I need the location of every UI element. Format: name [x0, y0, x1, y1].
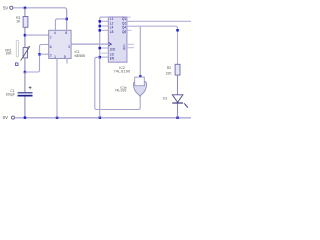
node junction pin4/pin8 — [65, 18, 68, 21]
wire R2 to LED — [177, 75, 179, 95]
wire pin 8 drop from 5V corner — [66, 9, 68, 31]
node rail junction LED — [176, 116, 179, 119]
wire stub L2 — [100, 20, 109, 22]
wire stub U/D — [100, 47, 109, 49]
wire stub LD — [101, 52, 109, 54]
svg-text:5V: 5V — [3, 5, 8, 10]
wire pin 5 stub — [66, 58, 68, 64]
wire C stub — [126, 43, 134, 45]
node rail junction pin1 — [56, 116, 59, 119]
node rail junction C1 — [24, 116, 27, 119]
wire Q4 to R2 corner — [126, 26, 177, 64]
wire 5V rail to corner above IC1 — [13, 8, 66, 31]
LED emission arrows — [184, 103, 187, 107]
svg-text:8: 8 — [65, 31, 67, 35]
wire C1 to 0V rail — [24, 97, 26, 118]
capacitor C1 — [18, 92, 33, 94]
node junction below VR1 — [24, 71, 27, 74]
wire pin 4 branch — [55, 19, 66, 31]
LED D1 — [172, 95, 183, 103]
wire R stub — [126, 47, 134, 49]
wire stub EN — [100, 56, 109, 58]
svg-text:1K: 1K — [16, 19, 21, 23]
node junction EN — [99, 56, 102, 59]
wire 5V junction down to R1 — [24, 8, 26, 17]
wire Q1 stub — [126, 16, 130, 18]
wire junction to pins 6 and 2 riser — [25, 45, 49, 73]
svg-text:220: 220 — [166, 71, 172, 75]
svg-text:0V: 0V — [3, 115, 8, 120]
wire junction down to C1 — [24, 72, 26, 92]
IC U1: IC1 NE555 timer body with pin numbers — [49, 30, 71, 58]
wire stub L4 — [100, 25, 109, 27]
node junction L8 — [99, 29, 102, 32]
node junction on R2 drop — [176, 29, 179, 32]
node rail junction tie line — [99, 116, 102, 119]
svg-text:U/D: U/D — [110, 47, 116, 51]
wire gate output to EN of IC2 — [95, 57, 140, 109]
node junction on 5V wire above R1 — [24, 7, 27, 10]
svg-text:R2: R2 — [167, 66, 171, 70]
svg-text:6: 6 — [50, 45, 52, 49]
svg-text:1: 1 — [54, 55, 56, 59]
svg-text:74LS02: 74LS02 — [115, 89, 127, 93]
wire 0V ground rail — [15, 117, 191, 119]
wire pin 3 output to IC2 clock — [71, 43, 109, 45]
svg-text:7: 7 — [50, 36, 52, 40]
resistor R1 — [23, 17, 28, 28]
wire pin 7 of IC1 — [25, 34, 49, 36]
svg-text:74LS190: 74LS190 — [114, 70, 131, 74]
svg-text:NE555: NE555 — [75, 54, 85, 58]
IC U2: IC2 74LS190 counter body with pin labels — [108, 17, 127, 62]
wire pin 2 of IC1 — [40, 53, 50, 55]
svg-text:4: 4 — [54, 31, 56, 35]
svg-text:Q8: Q8 — [122, 30, 126, 34]
potentiometer VR1 — [23, 48, 28, 58]
wire stub L8 — [100, 29, 109, 31]
node junction L4 — [99, 25, 102, 28]
node junction U/D — [99, 47, 102, 50]
wire Q2 long to right edge — [126, 20, 191, 22]
node junction gate inputs — [139, 75, 142, 78]
wire Q8 stub — [126, 29, 131, 31]
svg-text:L8: L8 — [110, 30, 114, 34]
svg-text:10K: 10K — [5, 52, 12, 56]
svg-text:100µF: 100µF — [6, 93, 15, 97]
svg-text:5: 5 — [64, 55, 66, 59]
wire tie line L1 corner down to rail — [100, 17, 109, 118]
pin clock wedge — [109, 42, 112, 45]
svg-text:EN: EN — [110, 57, 115, 61]
wire VR1 to lower junction — [24, 58, 26, 72]
svg-text:D1: D1 — [163, 96, 167, 100]
wire gate input drop from Q4 wire — [139, 26, 141, 76]
node junction pin7 — [24, 34, 27, 37]
resistor R2 — [175, 64, 180, 75]
node junction L2 — [99, 20, 102, 23]
node 0V terminal — [12, 116, 15, 119]
gate IC3b NOR — [134, 81, 147, 96]
wire pin 1 to rail — [56, 58, 58, 118]
VR1 set box — [16, 63, 19, 66]
node 5V terminal — [10, 6, 13, 9]
svg-text:3: 3 — [68, 45, 70, 49]
svg-text:2: 2 — [50, 54, 52, 58]
node junction pin2 riser — [38, 53, 41, 56]
wire R1 to pin7 junction — [24, 27, 26, 47]
wire LED cathode to rail — [177, 104, 179, 118]
